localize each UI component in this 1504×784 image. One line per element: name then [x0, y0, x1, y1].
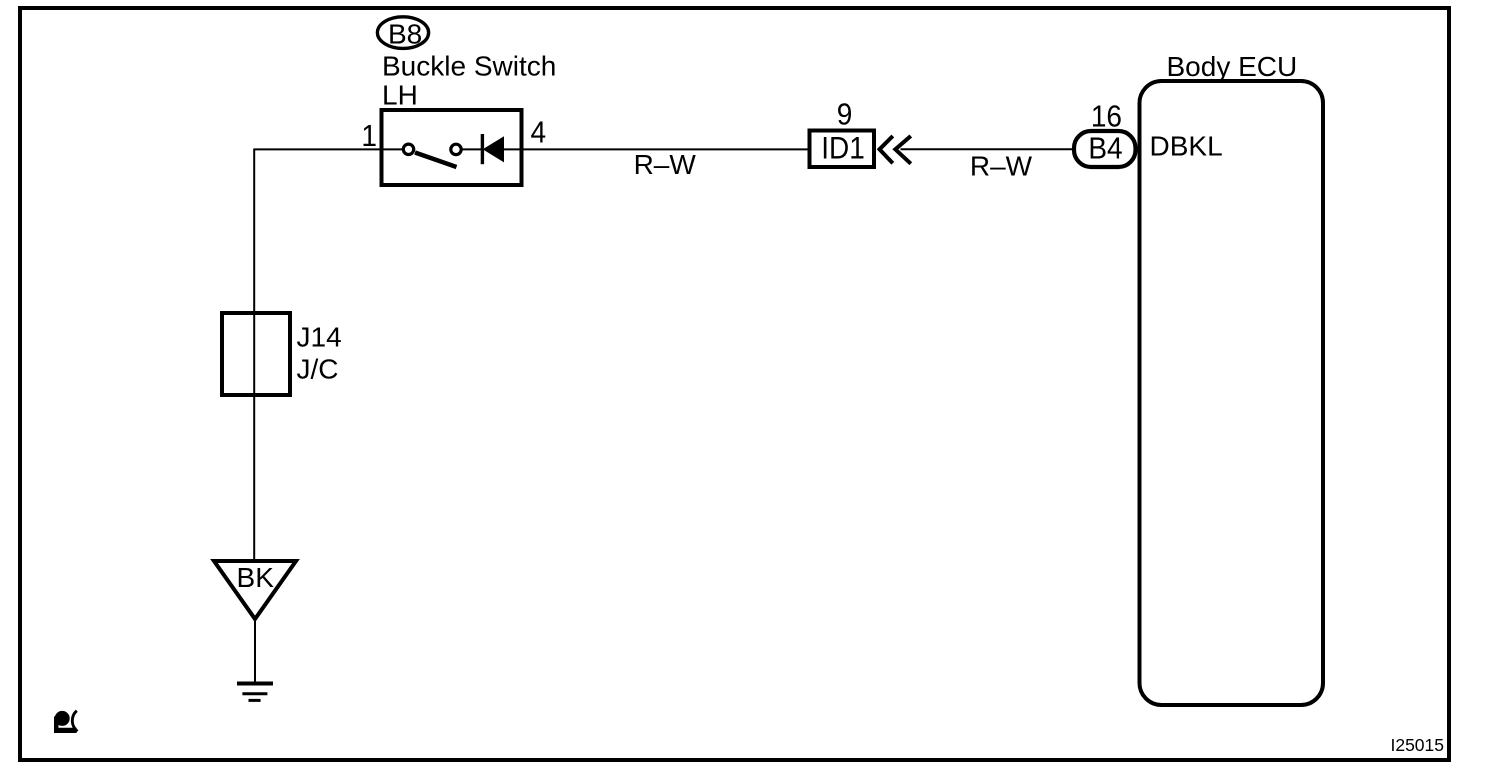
svg-text:Body ECU: Body ECU [1167, 51, 1298, 82]
wire BK triangle to ground [254, 619, 256, 683]
svg-text:J14: J14 [297, 322, 342, 353]
wire vertical from node down to J14 [253, 149, 255, 312]
wire B4 to chevrons [901, 148, 1073, 150]
wire circle2 to diode [461, 148, 482, 150]
svg-text:1: 1 [361, 119, 377, 154]
svg-text:BK: BK [237, 562, 275, 593]
svg-text:DBKL: DBKL [1150, 131, 1223, 162]
junction connector ID1 [810, 131, 875, 168]
svg-text:I25015: I25015 [1390, 735, 1444, 755]
svg-text:ID1: ID1 [821, 131, 865, 166]
wire through J14 down to BK triangle [253, 311, 255, 561]
ground wire color BK triangle [214, 561, 296, 619]
svg-text:R–W: R–W [970, 151, 1033, 182]
switch B8 box (Buckle Switch LH) [382, 110, 522, 185]
Body ECU box [1140, 81, 1324, 705]
svg-text:J/C: J/C [297, 354, 339, 385]
connector B4 [1074, 131, 1136, 167]
svg-text:LH: LH [382, 80, 418, 111]
wire diode to pin 4 and out to ID1 [503, 148, 808, 150]
diode (cathode bar + triangle) [482, 134, 503, 164]
svg-text:4: 4 [531, 115, 547, 150]
ground [237, 684, 273, 701]
connector chevrons [880, 136, 911, 164]
svg-text:B4: B4 [1088, 133, 1122, 166]
svg-text:Buckle Switch: Buckle Switch [382, 51, 556, 82]
svg-text:R–W: R–W [634, 149, 697, 180]
horn icon [54, 711, 77, 733]
switch contacts [403, 144, 461, 167]
svg-text:9: 9 [837, 97, 853, 132]
junction connector J14 [222, 313, 342, 395]
buckle switch LH label [382, 51, 556, 111]
connector B8 [377, 17, 428, 50]
svg-text:B8: B8 [388, 19, 422, 50]
wire from node to pin 1 [254, 148, 404, 150]
svg-text:16: 16 [1091, 99, 1122, 134]
